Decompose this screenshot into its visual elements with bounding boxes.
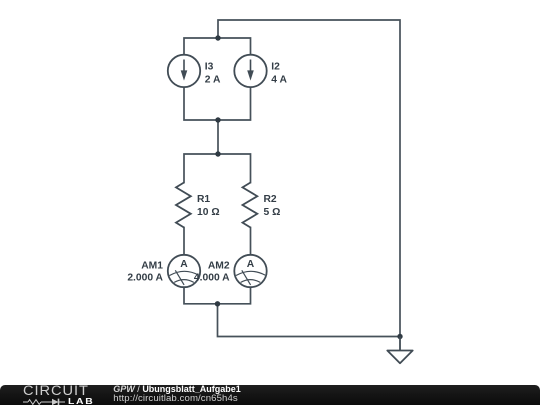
svg-text:5 Ω: 5 Ω: [264, 207, 281, 218]
wire current-source bottom: [184, 88, 251, 120]
svg-text:4 A: 4 A: [271, 74, 287, 85]
ammeter AM1: [168, 255, 200, 287]
label R2: [264, 194, 281, 218]
svg-text:4.000 A: 4.000 A: [194, 273, 230, 284]
svg-text:AM1: AM1: [141, 261, 163, 272]
label AM2: [194, 261, 230, 284]
wire middle link: [217, 120, 219, 154]
svg-text:R1: R1: [197, 194, 210, 205]
svg-text:2 A: 2 A: [205, 74, 221, 85]
node junction resistor-top: [215, 151, 220, 156]
node junction top: [215, 35, 220, 40]
label I2: [271, 62, 287, 86]
wire bottom to ground run: [218, 304, 401, 337]
logo CircuitLab: [23, 386, 93, 396]
current source I2: [234, 55, 266, 87]
svg-text:I2: I2: [271, 62, 280, 73]
wire resistor top: [184, 154, 251, 183]
current source I3: [168, 55, 200, 87]
node junction cs-bottom: [215, 117, 220, 122]
footer bar: [0, 385, 540, 405]
wire resistor to ammeter right: [250, 228, 252, 255]
svg-text:A: A: [247, 259, 255, 270]
svg-text:AM2: AM2: [208, 261, 230, 272]
label R1: [197, 194, 220, 218]
wire resistor to ammeter left: [183, 228, 185, 255]
wire top rail: [218, 20, 400, 337]
ammeter AM2: [234, 255, 266, 287]
resistor R1: [176, 183, 191, 228]
wire current-source top: [184, 38, 251, 54]
node junction ground: [397, 334, 402, 339]
resistor R2: [243, 183, 258, 228]
node junction bottom: [215, 301, 220, 306]
svg-text:R2: R2: [264, 194, 277, 205]
label I3: [205, 62, 221, 86]
svg-text:I3: I3: [205, 62, 214, 73]
svg-text:2.000 A: 2.000 A: [127, 273, 163, 284]
svg-text:A: A: [180, 259, 188, 270]
wire bottom rail: [184, 288, 251, 304]
footer url text: [113, 394, 237, 404]
logo doodle: [23, 397, 69, 405]
svg-text:10 Ω: 10 Ω: [197, 207, 220, 218]
ground: [387, 337, 412, 364]
footer title text: [113, 385, 241, 394]
label AM1: [127, 261, 163, 284]
